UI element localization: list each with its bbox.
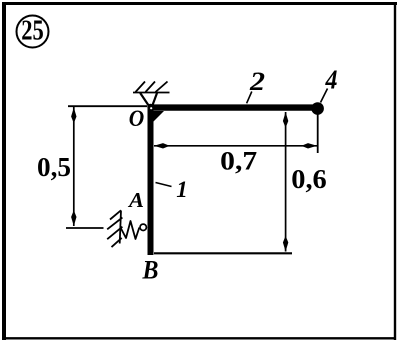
dimension 0,5 reference tick (bottom) <box>66 227 104 229</box>
extension line below ball 4 <box>317 114 319 153</box>
rod 2 (horizontal) <box>150 104 313 110</box>
dimension 0,5 reference line (top) <box>68 105 147 107</box>
arrow up (0,6) <box>283 112 288 126</box>
svg-text:0,6: 0,6 <box>291 164 327 194</box>
svg-text:O: O <box>129 106 145 131</box>
dimension 0,5 line <box>73 107 75 226</box>
dimension 0,7 line <box>154 145 317 147</box>
pin support hatching (ceiling) <box>133 82 170 93</box>
spring end ring at A <box>140 224 146 230</box>
arrow right (0,7) <box>303 143 317 148</box>
dimension 0,6 reference line (bottom) <box>154 252 292 254</box>
arrow up (0,5) <box>71 108 76 122</box>
spring zigzag <box>121 221 140 239</box>
pin joint O <box>147 104 153 110</box>
svg-text:2: 2 <box>249 67 265 96</box>
pin support triangle at O <box>140 93 157 106</box>
svg-text:0,5: 0,5 <box>37 152 71 182</box>
dimension 0,6 line <box>285 112 287 252</box>
rod 1 (vertical) <box>148 105 154 255</box>
corner fillet at O <box>153 111 164 122</box>
svg-text:4: 4 <box>325 65 338 95</box>
svg-text:0,7: 0,7 <box>220 146 257 176</box>
svg-text:25: 25 <box>21 16 44 47</box>
leader line for rod 1 label <box>156 183 172 187</box>
spring wall line <box>120 211 121 244</box>
arrow down (0,6) <box>283 238 288 252</box>
arrow down (0,5) <box>71 212 76 226</box>
circled figure number 25 <box>17 16 49 48</box>
leader tick for rod 2 label <box>247 92 252 104</box>
svg-text:A: A <box>127 188 144 212</box>
spring wall hatches <box>107 210 122 247</box>
svg-text:1: 1 <box>176 177 188 202</box>
arrow left (0,7) <box>154 143 168 148</box>
leader line for node 4 label <box>321 89 328 103</box>
svg-text:B: B <box>142 256 159 285</box>
node 4 ball <box>311 102 324 115</box>
